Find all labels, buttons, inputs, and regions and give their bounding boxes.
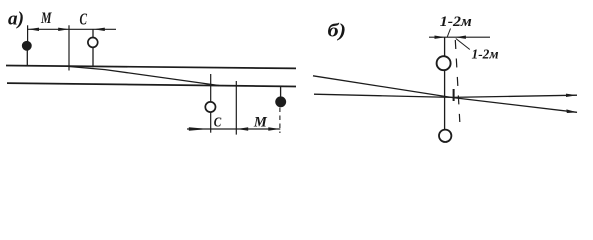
arrow 1-2m right (tip at x=455.2 pointing left) <box>455 36 466 39</box>
insulating joint tick <box>453 89 455 101</box>
dimension line bottom (C and M spans) <box>187 128 280 130</box>
arrow C left outside (tip at x=208.7 pointing right) <box>189 127 209 131</box>
signal head open circle bottom <box>205 102 215 112</box>
signal mast b (double head) <box>444 37 446 130</box>
signal head open circle b bottom <box>439 130 451 142</box>
signal mast bottom-right (filled head) <box>280 86 282 97</box>
svg-text:а): а) <box>8 8 24 29</box>
track line 2 (lower main) <box>7 83 296 86</box>
arrow M right (tip at x=69 pointing right) <box>58 28 69 31</box>
svg-text:С: С <box>80 10 88 29</box>
svg-text:1-2м: 1-2м <box>440 14 472 30</box>
svg-text:М: М <box>253 115 268 131</box>
arrow M left (tip at x=237 pointing left) <box>237 127 248 130</box>
leader to lower label <box>456 39 470 50</box>
signal head filled circle bottom right <box>276 97 286 107</box>
dimension line 1-2m <box>429 36 490 38</box>
track line b steep (with direction arrow) <box>313 76 577 113</box>
direction arrowhead steep <box>566 109 577 113</box>
arrow M right (tip at x=279.6 pointing right) <box>268 127 279 130</box>
svg-text:С: С <box>214 115 222 130</box>
arrow 1-2m left (tip at x=445.2 pointing right) <box>435 36 446 39</box>
arrow M left (tip at x=28.1 pointing left) <box>28 28 39 31</box>
signal mast left (post for filled head) <box>26 47 28 66</box>
signal head filled circle left <box>22 41 31 50</box>
dashed joint line <box>455 40 460 122</box>
leader from top label <box>447 29 450 37</box>
turnout diagonal track <box>69 67 219 86</box>
signal head open circle top <box>88 38 98 48</box>
dashed extension below filled head <box>279 108 281 134</box>
extension tick at signal post x=27.6 <box>27 25 29 47</box>
track line b shallow (with direction arrow) <box>314 94 577 97</box>
signal head open circle b top <box>437 56 451 70</box>
signal mast bottom-left (open head, post through diagonal) <box>210 74 212 133</box>
extension line at turnout point x=69 <box>68 25 70 70</box>
signal mast at x=93 (open head) <box>92 29 94 67</box>
direction arrowhead shallow <box>566 94 577 97</box>
svg-text:1-2м: 1-2м <box>472 46 499 61</box>
track line 1 (upper main) <box>6 66 296 69</box>
arrow C right outside (tip at x=93.5 pointing left) <box>94 28 105 31</box>
extension tick at x=236.3 <box>235 81 237 135</box>
svg-text:М: М <box>40 10 52 27</box>
dimension line top (M and C spans) <box>28 28 116 30</box>
svg-text:б): б) <box>328 21 347 42</box>
